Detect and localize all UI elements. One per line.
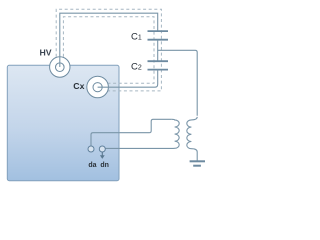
wire da terminal to left winding top [91,119,172,146]
transformer tank (test object body) [7,65,119,180]
svg-text:C2: C2 [131,62,142,73]
svg-text:da: da [88,162,96,169]
svg-text:HV: HV [40,48,52,58]
terminal da [88,146,94,152]
shield outer dashed line [56,9,161,91]
svg-text:Cx: Cx [73,81,84,91]
capacitor C1 [148,30,169,32]
svg-text:C1: C1 [131,31,142,42]
earth arrow under dn [101,152,103,156]
wire C1-C2 junction to right side [158,50,198,116]
svg-text:dn: dn [100,162,109,169]
HV bushing [50,57,70,77]
ground symbol [190,160,205,162]
wire HV cable [60,13,158,67]
capacitor C2 [148,60,169,62]
wire C1 to C2 [157,40,159,62]
inductor left winding [105,119,179,148]
wire C2 bottom to Cx bushing [98,70,158,88]
Cx bushing [87,76,109,98]
terminal dn [99,146,105,152]
inductor right winding (detector side) [187,117,197,161]
shield inner dashed line [63,17,154,84]
